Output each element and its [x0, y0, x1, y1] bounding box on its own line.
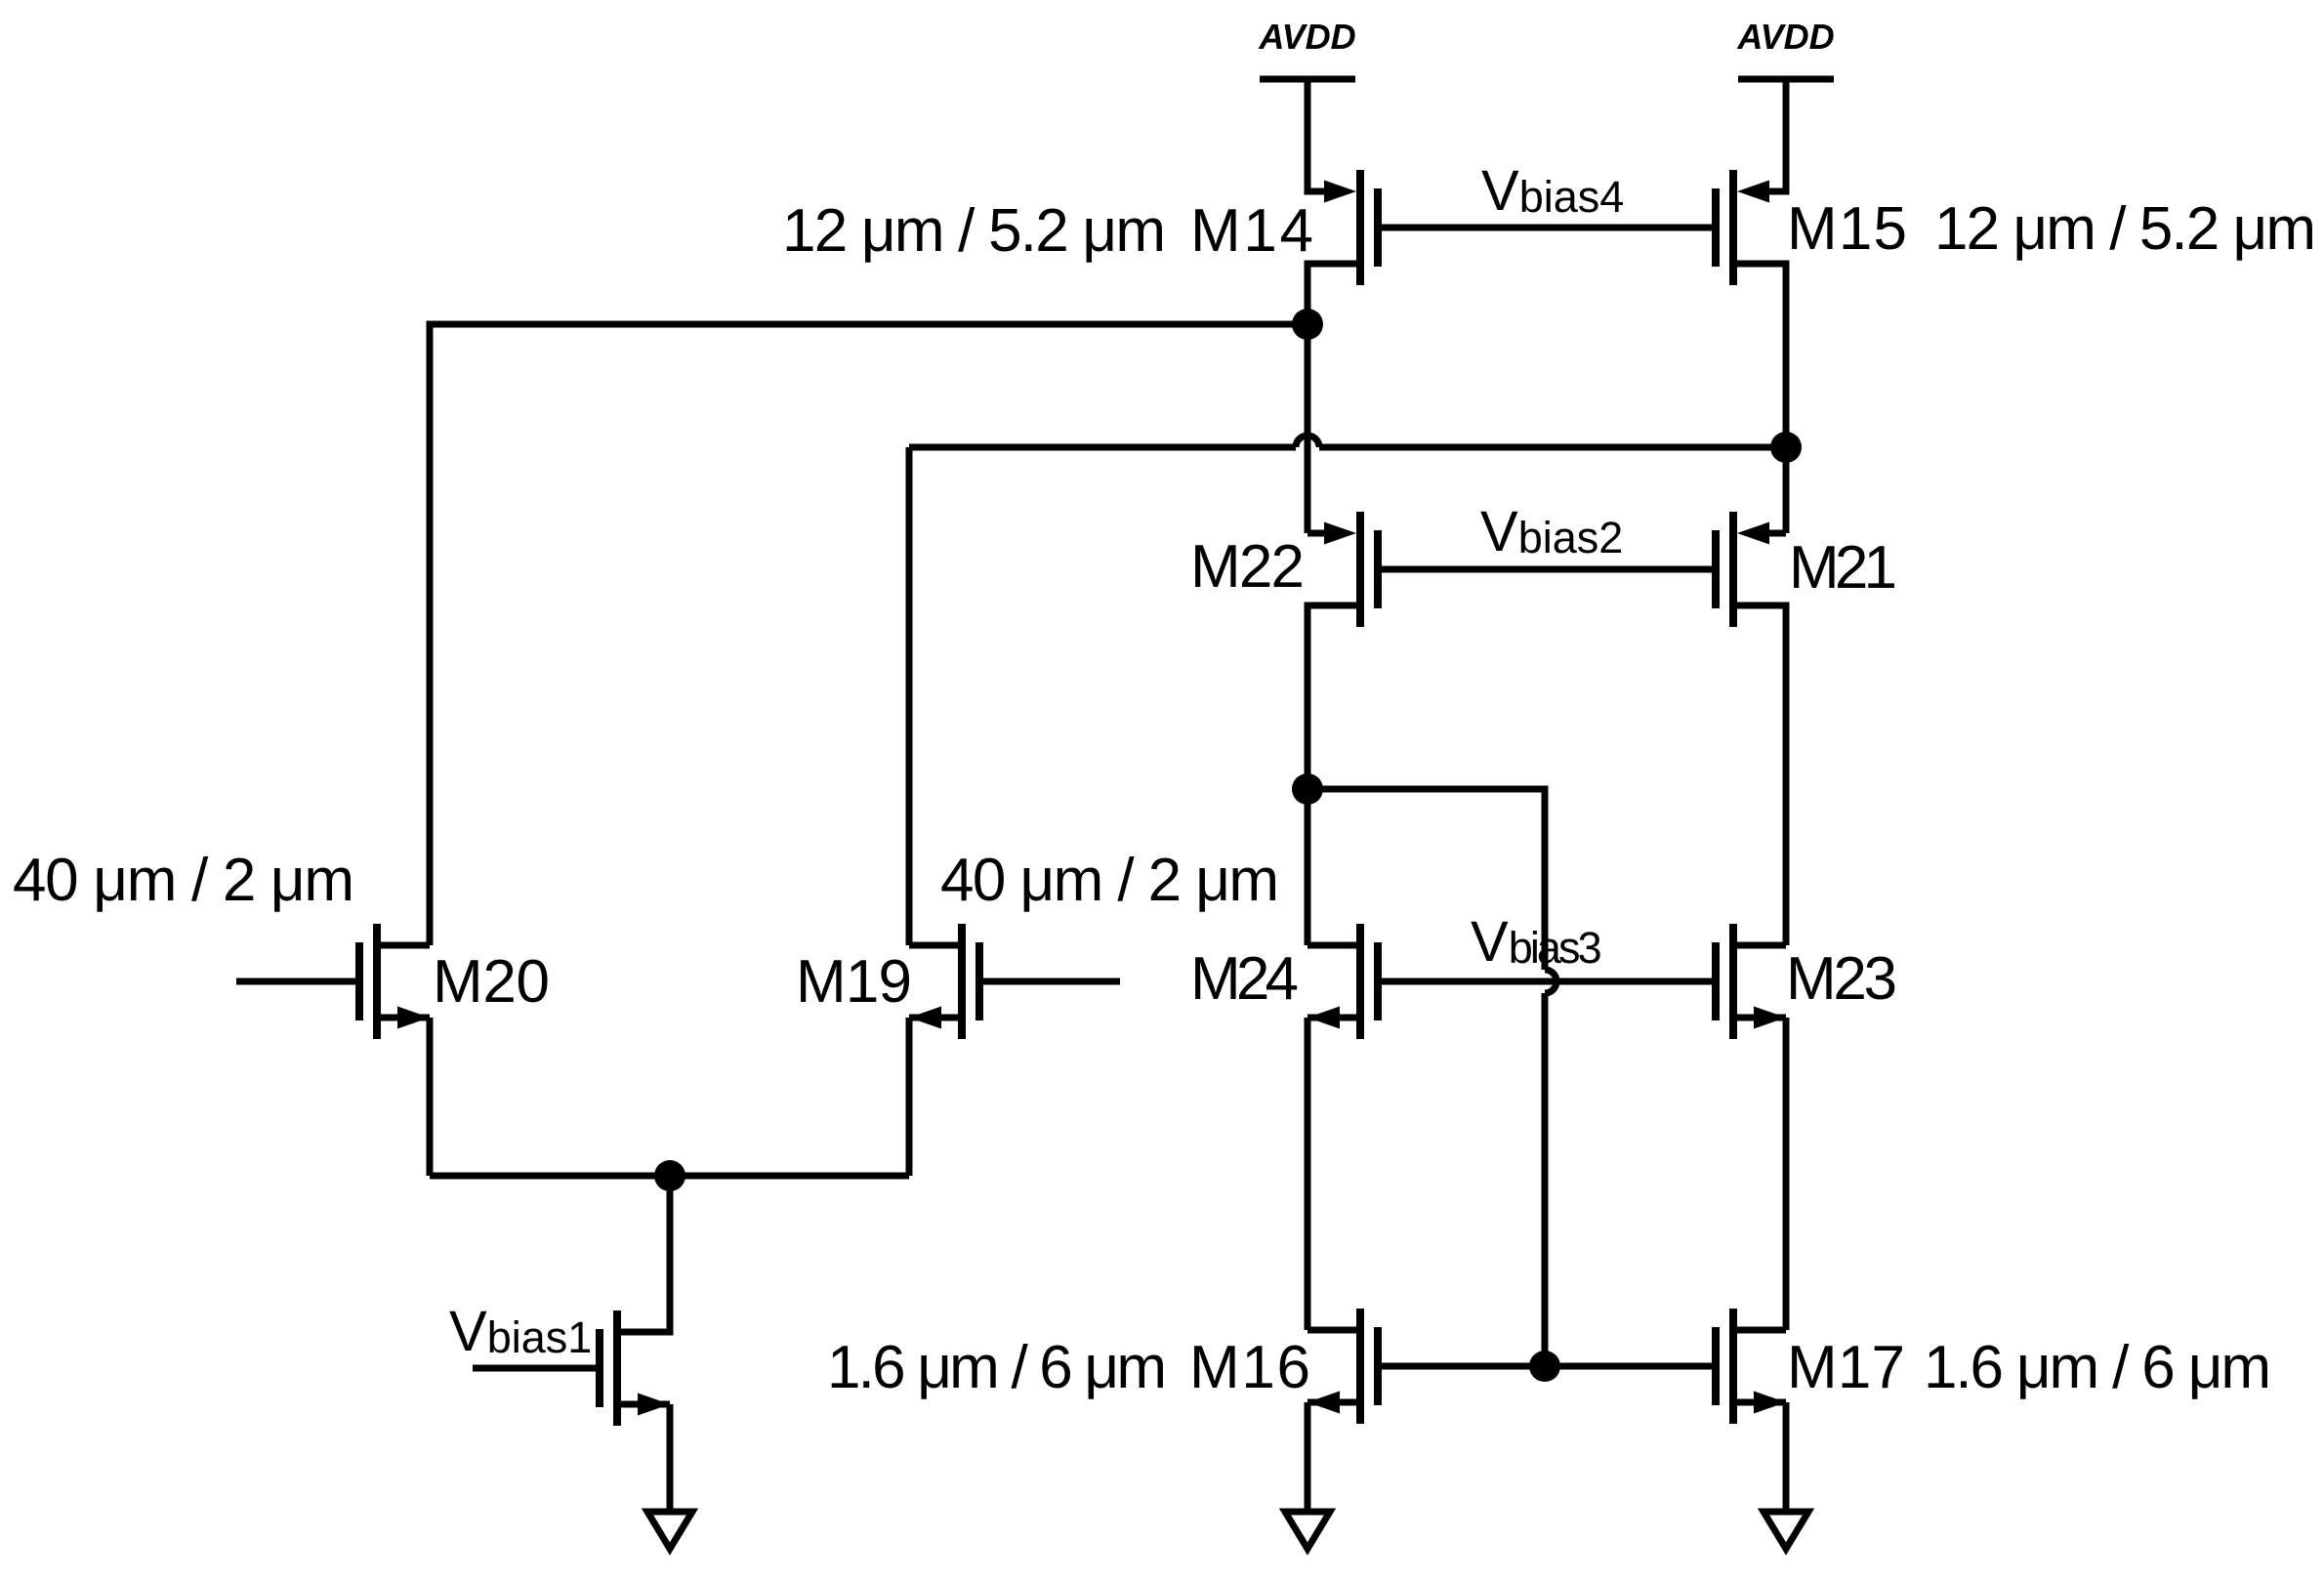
- transistor Vbias1 current source (NMOS): [473, 1311, 670, 1512]
- transistor M17 (NMOS): [1716, 1309, 1786, 1512]
- wire from M19 drain to M15 drain node (hops over vertical): [909, 436, 1786, 945]
- transistor M19 (input PMOS): [909, 924, 1120, 1176]
- svg-text:M17: M17: [1787, 1334, 1905, 1401]
- svg-text:1.6 μm / 6 μm: 1.6 μm / 6 μm: [1924, 1334, 2271, 1401]
- svg-text:12 μm / 5.2 μm: 12 μm / 5.2 μm: [1934, 195, 2316, 263]
- wire M15 drain down through node to M21 source: [1783, 264, 1790, 533]
- wire node to middle vertical (hops over Vbias3): [1307, 789, 1556, 1366]
- transistor M16 (NMOS): [1307, 1309, 1378, 1512]
- power AVDD (left): [1258, 17, 1355, 195]
- node tail: [654, 1160, 685, 1191]
- svg-text:AVDD: AVDD: [1258, 17, 1355, 57]
- wire M16-M17 gate net: [1378, 1363, 1716, 1370]
- ground (below Vbias1 device): [647, 1512, 692, 1549]
- svg-text:M23: M23: [1786, 945, 1897, 1013]
- svg-text:M14: M14: [1190, 197, 1313, 265]
- svg-text:M20: M20: [433, 948, 550, 1016]
- transistor M20 (input PMOS): [236, 924, 430, 1176]
- svg-text:M15: M15: [1787, 195, 1907, 263]
- ground (below M17): [1764, 1512, 1808, 1549]
- transistor M23 (NMOS): [1716, 924, 1786, 1330]
- svg-text:M21: M21: [1789, 534, 1897, 602]
- wire tail down to bias transistor: [617, 1176, 670, 1332]
- transistor M22 (PMOS): [1307, 512, 1378, 945]
- node M22 drain / gate of M16-M17: [1292, 773, 1323, 805]
- svg-text:M19: M19: [796, 948, 912, 1016]
- transistor M14 (PMOS): [1307, 170, 1378, 327]
- node drain M15 / output net: [1770, 432, 1802, 463]
- svg-text:40 μm / 2 μm: 40 μm / 2 μm: [940, 847, 1279, 914]
- svg-text:M24: M24: [1190, 945, 1299, 1013]
- wire tail node of diff pair: [430, 1173, 909, 1180]
- wire M14 drain node down to M22 source: [1305, 324, 1311, 533]
- svg-text:M16: M16: [1189, 1334, 1310, 1401]
- transistor M15 (PMOS): [1716, 170, 1786, 327]
- transistor M24 (NMOS): [1307, 924, 1378, 1330]
- power AVDD (right): [1736, 17, 1834, 195]
- wire Vbias2 gate net: [1378, 566, 1716, 573]
- node on M16-M17 gate net: [1529, 1351, 1560, 1382]
- svg-text:M22: M22: [1190, 533, 1305, 601]
- svg-text:12 μm / 5.2 μm: 12 μm / 5.2 μm: [782, 197, 1166, 265]
- wire from node to M20 drain: [430, 324, 1307, 945]
- svg-text:1.6 μm / 6 μm: 1.6 μm / 6 μm: [827, 1334, 1167, 1401]
- node drain M14 / gate feedback: [1292, 309, 1323, 340]
- ground (below M16): [1285, 1512, 1330, 1549]
- wire Vbias3 gate net: [1378, 978, 1716, 985]
- svg-text:AVDD: AVDD: [1736, 17, 1834, 57]
- wire Vbias4 gate net: [1378, 225, 1716, 231]
- transistor M21 (PMOS): [1716, 512, 1786, 945]
- svg-text:40 μm / 2 μm: 40 μm / 2 μm: [13, 847, 354, 914]
